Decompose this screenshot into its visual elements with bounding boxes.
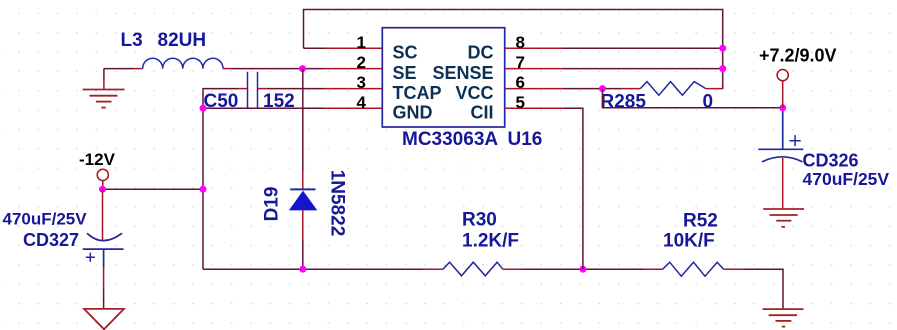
pin stub R285 left (red) (621, 88, 640, 90)
node junction output/CD326 (779, 104, 786, 111)
wire top bus from pin1 to right vertical (304, 10, 723, 90)
svg-text:CD327: CD327 (23, 230, 79, 250)
svg-text:TCAP: TCAP (393, 83, 442, 103)
wire -12V port stub (102, 181, 104, 190)
capacitor CD326 plus sign (790, 135, 801, 146)
node junction C50/pin4 (200, 105, 207, 112)
capacitor CD327 curved plate (87, 233, 122, 240)
wire pin6 VCC to R285 (505, 88, 564, 90)
wire pin1 SC to box (304, 47, 325, 49)
wire to power ground (103, 289, 105, 309)
svg-text:2: 2 (357, 53, 366, 72)
wire pin2 SE net: L3 to box (233, 68, 325, 70)
svg-text:1.2K/F: 1.2K/F (462, 230, 519, 251)
svg-text:MC33063A: MC33063A (402, 129, 498, 150)
svg-text:DC: DC (468, 43, 494, 63)
svg-text:0: 0 (703, 92, 714, 113)
svg-text:SC: SC (393, 43, 418, 63)
capacitor CD326 curved plate (762, 157, 803, 162)
wire pin5 CII down to divider (505, 107, 564, 109)
svg-text:U16: U16 (508, 129, 543, 150)
capacitor CD326 top lead (blue) (782, 111, 784, 149)
pin stub R52 right (red) (724, 268, 743, 270)
node junction L3/pin2/D19 (299, 65, 306, 72)
capacitor CD326 straight plate (758, 148, 803, 150)
wire D19 branch lower (302, 240, 304, 269)
svg-text:5: 5 (516, 93, 525, 112)
svg-text:CII: CII (470, 103, 493, 123)
pin stub CD327 bottom (red) (103, 268, 105, 290)
wire pin3 to C50 (267, 88, 324, 90)
pin stub CD326 bottom (red) (782, 158, 784, 209)
pin stub U16 pin1 (red) (324, 47, 382, 49)
pin stub R30 left (red) (424, 268, 443, 270)
inductor L3 (143, 58, 223, 68)
capacitor CD327 bottom lead (blue) (103, 249, 105, 267)
node junction pin8 (719, 45, 726, 52)
wire from GND1 to L3 left terminal (104, 68, 133, 70)
svg-text:SENSE: SENSE (432, 63, 493, 83)
svg-text:10K/F: 10K/F (663, 230, 715, 251)
resistor R285 (640, 82, 706, 96)
pin stub R30 right (red) (503, 268, 522, 270)
wire C50 left to vertical riser (203, 89, 238, 109)
wire D19 branch upper (302, 69, 304, 170)
pin stub L3 left (red) (133, 68, 143, 70)
wire pin8 to right vertical (564, 47, 723, 49)
pin stub R285 right (red) (706, 88, 723, 90)
svg-text:L3: L3 (121, 30, 143, 51)
svg-text:3: 3 (357, 73, 366, 92)
svg-text:82UH: 82UH (158, 30, 207, 51)
ground GND3 bottom-right earth symbol (763, 309, 804, 327)
svg-text:1N5822: 1N5822 (327, 170, 348, 237)
pin stub CD327 top (red) (102, 189, 104, 240)
pin stub D19 cathode (red) (302, 170, 304, 189)
wire pin4 GND to box (203, 107, 324, 109)
wire pin3 TCAP to C50 right plate (324, 88, 382, 90)
ground GND2 power-ground triangle (84, 309, 124, 329)
ground GND1 top-left earth symbol (103, 69, 105, 80)
wire bottom bus middle segment (522, 268, 643, 270)
wire output node down and right (603, 89, 783, 108)
wire pin8 DC to right vertical (505, 47, 564, 49)
diode D19 cathode bar (290, 188, 315, 190)
svg-text:-12V: -12V (79, 150, 116, 169)
node junction -12V riser (200, 186, 207, 193)
node junction pin7 (719, 65, 726, 72)
pin stub R52 left (red) (643, 268, 662, 270)
svg-text:D19: D19 (262, 187, 283, 222)
node junction pin5/bus (579, 266, 586, 273)
svg-text:470uF/25V: 470uF/25V (803, 169, 890, 189)
svg-text:+7.2/9.0V: +7.2/9.0V (759, 46, 837, 66)
svg-text:470uF/25V: 470uF/25V (3, 210, 88, 229)
wire pin7 to right vertical (564, 68, 723, 70)
svg-text:CD326: CD326 (803, 151, 859, 171)
IC U1 box MC33063A (382, 28, 504, 127)
wire vertical -12V riser x=203 (202, 108, 204, 269)
capacitor CD327 straight plate (83, 248, 124, 250)
node junction VCC/output (599, 85, 606, 92)
svg-text:VCC: VCC (455, 83, 493, 103)
node junction -12V port (99, 186, 106, 193)
svg-text:1: 1 (357, 33, 366, 52)
pin stub U16 pin4 (red) (324, 107, 382, 109)
resistor R52 (663, 262, 724, 276)
ground GND4 below CD326 earth symbol (763, 209, 804, 227)
svg-text:SE: SE (393, 63, 417, 83)
pin stub C50 left (red) (238, 88, 248, 90)
wire bus right to ground (743, 269, 783, 309)
diode D19 triangle (289, 191, 317, 211)
pin stub C50 right (red) (258, 88, 268, 90)
wire bottom bus left segment (203, 268, 424, 270)
svg-text:R52: R52 (683, 210, 718, 231)
svg-text:GND: GND (393, 103, 433, 123)
pin stub D19 anode (red) (302, 210, 304, 240)
wire pin6 to R285 (564, 88, 622, 90)
node junction D19/bus (299, 266, 306, 273)
svg-text:R285: R285 (601, 92, 647, 113)
svg-text:4: 4 (357, 93, 367, 112)
resistor R30 (443, 262, 503, 276)
wire -12V horizontal to riser (103, 188, 204, 190)
wire pin7 SENSE to right vertical (505, 68, 564, 70)
power port +7.2/9.0V circle (777, 70, 788, 81)
svg-text:R30: R30 (462, 209, 497, 230)
pin stub U16 pin2 (red) (324, 68, 382, 70)
wire +7.2V port stub (782, 81, 784, 108)
pin stub L3 right (red) (223, 68, 233, 70)
power port -12V circle (97, 169, 108, 180)
capacitor CD327 plus sign (86, 253, 95, 262)
capacitor C50 (248, 72, 258, 109)
wire pin5 down to divider (564, 108, 583, 269)
